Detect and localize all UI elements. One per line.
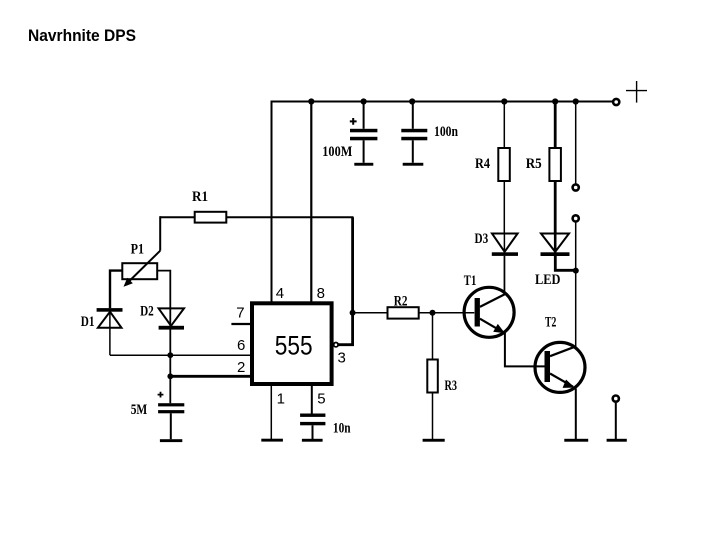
svg-text:D2: D2 (140, 304, 154, 320)
ground 5M (160, 439, 182, 442)
terminal V+ (613, 99, 619, 105)
pin 7 stub (231, 323, 252, 325)
wire R2 to T1 base (419, 312, 475, 314)
wire R3 to ground (432, 393, 434, 440)
wire pin 2 (170, 375, 252, 378)
svg-text:8: 8 (317, 285, 325, 302)
svg-text:P1: P1 (131, 242, 144, 258)
plus V+ mark (626, 81, 647, 103)
wire P1 left to D1 (110, 271, 122, 309)
svg-text:R1: R1 (192, 189, 208, 205)
svg-text:T1: T1 (464, 273, 477, 289)
node rail-pin8 (308, 98, 314, 104)
node rail-R4 (501, 98, 507, 104)
svg-text:10n: 10n (333, 421, 351, 437)
ground 100n (403, 163, 424, 166)
node pin6-D2 (167, 352, 173, 358)
ground R3 (423, 439, 445, 442)
svg-text:1: 1 (277, 390, 285, 407)
wire pin 1 (270, 384, 272, 439)
node R2-R3 (430, 310, 436, 316)
diode D3 (492, 234, 518, 293)
terminal K2 (573, 215, 579, 221)
ground pin1 (261, 439, 283, 442)
wire top supply rail (272, 101, 613, 103)
wire node to R3 (432, 313, 434, 360)
svg-text:D1: D1 (81, 314, 95, 330)
resistor R4 (498, 102, 510, 234)
node pin2-5M (167, 373, 173, 379)
svg-text:6: 6 (237, 337, 245, 354)
svg-text:Navrhnite DPS: Navrhnite DPS (28, 27, 136, 45)
wire rail to pin8 (310, 102, 312, 302)
resistor R2 (388, 307, 419, 318)
ground 10n (302, 439, 323, 442)
capacitor 100n (401, 102, 427, 163)
node rail-K1 (573, 98, 579, 104)
resistor R5 (549, 102, 561, 234)
svg-text:T2: T2 (545, 314, 556, 330)
wire rail to terminal K1 (575, 102, 577, 184)
wire P1 right to D2 (157, 271, 170, 309)
ground 100M (354, 163, 373, 166)
resistor R1 (160, 212, 353, 223)
node rail-100n (409, 98, 415, 104)
wire pin 6 (110, 354, 252, 356)
capacitor 5M (158, 392, 185, 440)
node LED-collector (573, 268, 579, 274)
svg-text:R5: R5 (526, 156, 542, 172)
LED diode (541, 234, 577, 271)
capacitor 100M (350, 102, 378, 163)
op-amp U1 555 box (252, 303, 332, 384)
resistor R3 (427, 360, 438, 393)
node pin3-R2 (350, 310, 356, 316)
transistor T1 (464, 256, 544, 367)
terminal OUT bottom (613, 396, 619, 402)
svg-text:100n: 100n (434, 124, 459, 140)
svg-text:100M: 100M (322, 144, 352, 160)
potentiometer P1 body (122, 263, 157, 279)
wire pin 5 (311, 384, 313, 414)
ground T2 (564, 439, 588, 442)
P1 wiper arrow (124, 251, 161, 287)
svg-text:2: 2 (237, 359, 245, 376)
wire R1 to P1 wiper (159, 216, 161, 251)
node rail-100M (361, 98, 367, 104)
svg-text:LED: LED (535, 272, 561, 288)
svg-text:5: 5 (317, 390, 325, 407)
pin 3 bubble (334, 343, 338, 347)
diode D2 (159, 308, 184, 403)
diode D1 (97, 308, 123, 355)
wire pin3 to R2 (353, 312, 388, 314)
svg-text:4: 4 (276, 285, 284, 302)
node rail-R5 (552, 98, 558, 104)
svg-text:3: 3 (338, 350, 346, 367)
terminal K1 (573, 184, 579, 190)
svg-text:555: 555 (275, 331, 313, 361)
svg-text:7: 7 (236, 305, 244, 322)
ground OUT (607, 439, 627, 442)
svg-text:R3: R3 (445, 378, 458, 394)
svg-text:R2: R2 (394, 293, 408, 309)
wire OUT to ground (615, 403, 617, 440)
svg-text:D3: D3 (475, 231, 489, 247)
svg-text:5M: 5M (131, 402, 148, 418)
wire rail to pin4 (271, 101, 273, 302)
wire R1 to pin3 (338, 217, 353, 345)
svg-text:R4: R4 (475, 156, 490, 172)
transistor T2 (535, 342, 585, 439)
capacitor 10n (300, 414, 325, 440)
wire K2 to T2 collector (575, 223, 577, 348)
